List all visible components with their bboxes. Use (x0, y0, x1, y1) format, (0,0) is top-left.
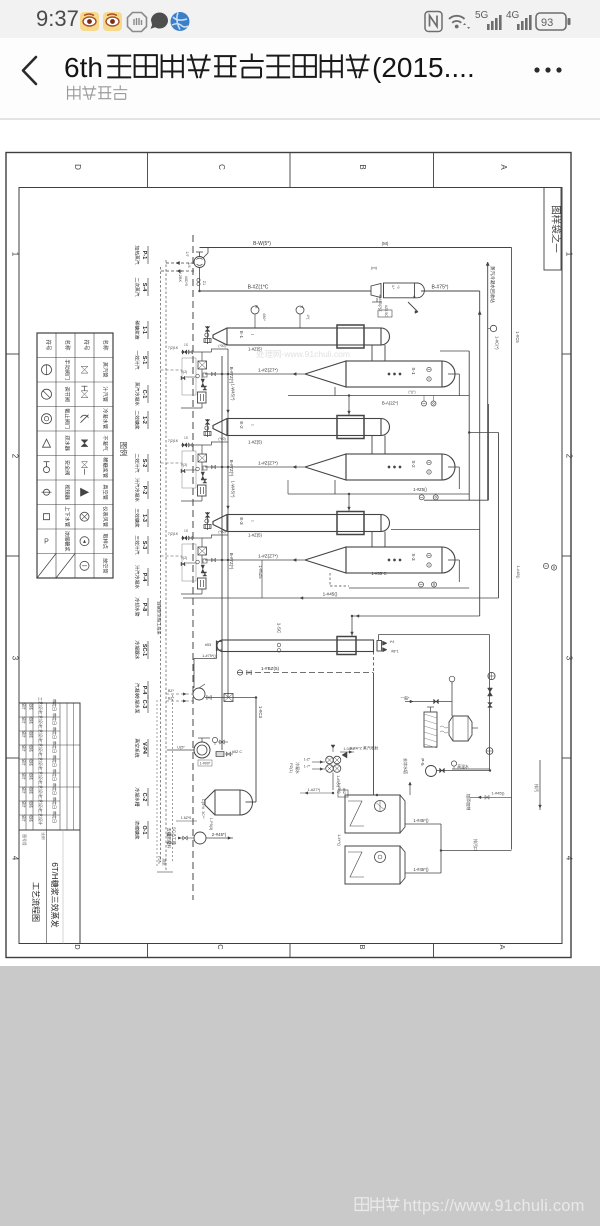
svg-text:1-#5Z5: 1-#5Z5 (258, 565, 263, 579)
svg-text:S-3: S-3 (141, 541, 147, 549)
svg-text:设计: 设计 (22, 814, 27, 822)
subtitle 文件预览 (68, 86, 80, 100)
svg-text:1-1: 1-1 (141, 326, 147, 334)
svg-text:手动阀门: 手动阀门 (64, 359, 72, 380)
svg-text:B: B (358, 164, 367, 169)
svg-text:校核: 校核 (29, 758, 34, 766)
svg-text:B-#A*Z 蒸汽喷射: B-#A*Z 蒸汽喷射 (350, 746, 379, 751)
svg-text:冷凝水: 冷凝水 (295, 762, 300, 774)
svg-text:4-*: 4-* (391, 285, 395, 290)
blowdown line (470, 796, 512, 798)
svg-text:审定日: 审定日 (52, 797, 58, 809)
svg-text:3: 3 (11, 656, 20, 661)
svg-text:1-W45(*): 1-W45(*) (231, 481, 236, 498)
vapor outlet bracket S-2 (448, 466, 459, 468)
footer gray area (0, 966, 600, 1226)
svg-text:*0: *0 (396, 285, 400, 288)
juice feed drops into E cones (227, 410, 230, 413)
svg-text:C-3: C-3 (141, 700, 147, 709)
battery limit dash-dot lines (192, 235, 194, 900)
svg-text:S-1: S-1 (411, 367, 416, 375)
svg-text:B-#7Z(*): B-#7Z(*) (229, 367, 234, 384)
svg-text:二次蒸汽: 二次蒸汽 (134, 277, 141, 296)
svg-text:#8*1: #8*1 (391, 650, 398, 654)
svg-text:B-#7Z(*): B-#7Z(*) (229, 553, 234, 570)
svg-text:仪表风管: 仪表风管 (102, 506, 110, 527)
svg-text:1-P5(3): 1-P5(3) (209, 818, 213, 831)
svg-text:4: 4 (565, 856, 574, 861)
svg-text:1-#45(): 1-#45() (492, 791, 506, 796)
svg-text:汁汽管: 汁汽管 (102, 386, 110, 402)
separator S-1 (305, 361, 346, 387)
trap station inlet line (181, 537, 212, 539)
svg-text:图样袋之一: 图样袋之一 (550, 205, 562, 253)
svg-text:D: D (73, 944, 82, 950)
juice discharge from S-2 (205, 466, 305, 468)
svg-text:1-2: 1-2 (141, 416, 147, 424)
svg-text:P-4: P-4 (141, 573, 147, 581)
svg-text:P-8: P-8 (141, 603, 147, 611)
svg-text:1-#C3: 1-#C3 (258, 706, 263, 719)
svg-text:(*)(*): (*)(*) (408, 390, 415, 394)
svg-text:蒸汽管: 蒸汽管 (102, 362, 110, 378)
row3 condensate lines (329, 573, 331, 586)
svg-text:1S: 1S (184, 436, 188, 440)
svg-text:设计: 设计 (22, 800, 27, 808)
svg-text:V(2): V(2) (181, 370, 187, 374)
header (0, 38, 600, 119)
svg-text:(*00): (*00) (218, 530, 225, 534)
svg-text:2-#45*): 2-#45*) (212, 832, 227, 837)
trap manifold (198, 361, 207, 369)
svg-text:符号: 符号 (83, 339, 91, 351)
svg-text:1-#Z(5): 1-#Z(5) (248, 533, 262, 538)
battery (536, 13, 571, 30)
separator S-3 (305, 547, 346, 573)
svg-text:F2%: F2% (157, 856, 161, 864)
svg-text:一般*: 一般* (400, 696, 410, 701)
vent arrow (409, 784, 411, 795)
seal tank 1 (345, 795, 400, 833)
barometric / drain dash line (237, 672, 374, 674)
svg-text:#6Z: #6Z (342, 788, 346, 795)
svg-text:A: A (412, 296, 417, 299)
trap manifold (198, 454, 207, 462)
svg-text:审定日: 审定日 (52, 713, 58, 725)
svg-text:高温水: 高温水 (457, 764, 469, 769)
svg-text:处理网-www.91chuli.com: 处理网-www.91chuli.com (256, 349, 350, 359)
svg-text:#53: #53 (205, 643, 211, 647)
svg-text:一效汁汽: 一效汁汽 (134, 350, 141, 369)
svg-text:名称: 名称 (102, 339, 110, 351)
strainer (203, 479, 207, 481)
svg-text:1: 1 (565, 252, 574, 257)
legend table (37, 333, 113, 578)
svg-text:1-#45*(): 1-#45*() (413, 867, 429, 872)
row1 condensate line with pots (334, 387, 336, 396)
svg-text:截止阀门: 截止阀门 (64, 408, 72, 429)
svg-text:P-1: P-1 (141, 251, 147, 259)
row2 condensate lines (334, 480, 336, 494)
menu dots (534, 67, 539, 72)
trap station inlet line (181, 351, 212, 353)
svg-text:设计: 设计 (22, 702, 27, 710)
svg-text:#Z5.5C: #Z5.5C (384, 305, 388, 317)
svg-text:P-5: P-5 (420, 758, 425, 766)
svg-text:A: A (498, 944, 507, 949)
svg-text:1-#C5: 1-#C5 (515, 331, 520, 343)
status bar icons (0, 0, 600, 38)
svg-text:Ⅰ: Ⅰ (250, 334, 255, 335)
svg-text:浓缩糖浆: 浓缩糖浆 (64, 531, 72, 552)
svg-text:C(5*#: C(5*# (201, 799, 206, 810)
svg-text:设计: 设计 (22, 730, 27, 738)
steam supply drop with valves (207, 419, 209, 437)
svg-text:1S: 1S (184, 529, 188, 533)
syrup pump (big) (194, 742, 210, 758)
svg-text:B-#75*): B-#75*) (432, 285, 449, 291)
svg-text:去糖浆配料: 去糖浆配料 (166, 828, 173, 850)
vapor duct E-1 to S-1 (371, 345, 373, 361)
svg-text:1-#C(*): 1-#C(*) (495, 336, 500, 350)
svg-text:1-#5*(): 1-#5*() (337, 783, 341, 794)
svg-text:7(2)1K: 7(2)1K (168, 346, 179, 350)
svg-text:C-2: C-2 (141, 793, 147, 802)
svg-text:SC-5工段: SC-5工段 (171, 827, 178, 846)
svg-text:C: C (217, 164, 226, 170)
svg-text:校核: 校核 (29, 730, 34, 738)
svg-text:#*(: #*( (306, 315, 310, 321)
svg-text:稀糖浆液: 稀糖浆液 (134, 320, 141, 339)
svg-text:视镜器: 视镜器 (64, 484, 72, 500)
condenser SC-1 (222, 640, 374, 652)
vapor line into condenser (352, 615, 480, 617)
svg-text:校核: 校核 (29, 716, 34, 724)
vapor duct E-2 to S-2 (371, 436, 373, 455)
svg-text:3: 3 (565, 656, 574, 661)
svg-text:B-W(5*): B-W(5*) (253, 241, 271, 247)
svg-text:1-3: 1-3 (141, 514, 147, 522)
svg-text:校核: 校核 (29, 744, 34, 752)
svg-text:排浆: 排浆 (162, 858, 167, 866)
svg-text:图例: 图例 (119, 442, 129, 457)
condenser top water line (379, 634, 490, 636)
svg-text:Z1: Z1 (202, 281, 206, 285)
tank outlet header (440, 824, 442, 873)
svg-text:S-1: S-1 (141, 356, 147, 364)
svg-text:取样点: 取样点 (102, 533, 110, 549)
svg-text:B-A(2Z*): B-A(2Z*) (382, 401, 399, 406)
svg-text:冷凝水槽: 冷凝水槽 (134, 787, 141, 806)
instrument bubbles above E-1 (251, 306, 259, 314)
feed stubs into pump P-4 (166, 693, 193, 695)
svg-text:V(2): V(2) (181, 556, 187, 560)
svg-text:1-#Z(Z7*): 1-#Z(Z7*) (258, 368, 278, 373)
top-right drawing number box (544, 188, 561, 271)
svg-text:U(5*: U(5* (177, 746, 185, 750)
svg-text:工艺设计: 工艺设计 (38, 809, 44, 825)
svg-text:放空管: 放空管 (102, 558, 110, 574)
junction dots (198, 290, 200, 292)
svg-text:校核: 校核 (29, 786, 34, 794)
cooling tower (424, 712, 437, 747)
svg-text:S-2: S-2 (411, 460, 416, 468)
svg-text:P-2: P-2 (141, 486, 147, 494)
svg-text:安全阀: 安全阀 (64, 460, 72, 476)
svg-text:C: C (216, 944, 225, 950)
svg-text:符号: 符号 (45, 339, 53, 351)
svg-text:1-#Z5(): 1-#Z5() (413, 487, 427, 492)
svg-text:不凝气: 不凝气 (102, 435, 110, 451)
svg-text:480*: 480* (262, 313, 266, 321)
vapor outlet bracket S-3 (448, 559, 459, 561)
svg-text:1/4: 1/4 (187, 262, 191, 267)
trap manifold (198, 547, 207, 555)
pump P-4 (193, 688, 205, 700)
svg-text:加热蒸汽: 加热蒸汽 (134, 245, 141, 264)
svg-text:二效糖浆: 二效糖浆 (134, 410, 141, 429)
svg-text:图号设: 图号设 (22, 834, 27, 846)
svg-text:#8D*5: #8D*5 (184, 276, 188, 286)
svg-text:P: P (44, 539, 49, 546)
svg-text:汁汽冷凝水: 汁汽冷凝水 (134, 478, 141, 502)
evaporator E-1 body (227, 328, 381, 345)
svg-text:PZ(1): PZ(1) (289, 763, 294, 774)
octagon hand icon (128, 13, 147, 32)
long utility drop right side (511, 248, 513, 850)
svg-text:设计: 设计 (22, 758, 27, 766)
svg-text:稀糖浆管: 稀糖浆管 (102, 457, 110, 478)
svg-text:1-#Z(5): 1-#Z(5) (248, 440, 262, 445)
svg-text:1.6Z*5: 1.6Z*5 (181, 816, 192, 820)
svg-text:1-Z*: 1-Z* (304, 758, 311, 762)
svg-text:6T/H糖浆三效蒸发: 6T/H糖浆三效蒸发 (50, 862, 60, 927)
svg-text:1-W45(*): 1-W45(*) (231, 384, 236, 401)
title block (19, 703, 80, 944)
separator S-2 (305, 454, 346, 480)
svg-text:B: B (358, 944, 367, 949)
evaporator E-2 body (227, 419, 381, 436)
svg-text:审定日: 审定日 (52, 783, 58, 795)
svg-text:审定日: 审定日 (52, 811, 58, 823)
svg-text:V(2): V(2) (181, 463, 187, 467)
svg-text:7(2)1K: 7(2)1K (168, 439, 179, 443)
pump P-5 (426, 766, 437, 777)
trap station inlet line (181, 444, 212, 446)
svg-text:蒸汽冷凝水回收站: 蒸汽冷凝水回收站 (489, 266, 496, 303)
svg-text:三效糖浆: 三效糖浆 (134, 508, 141, 527)
svg-text:1/7: 1/7 (185, 251, 189, 256)
svg-text:校核: 校核 (29, 702, 34, 710)
svg-text:1-#Y*(): 1-#Y*() (337, 834, 341, 845)
svg-text:1-#Z(Z7*): 1-#Z(Z7*) (258, 461, 278, 466)
svg-text:设计: 设计 (22, 744, 27, 752)
globe icon (171, 12, 190, 31)
status bar (0, 0, 600, 38)
condensate riser to recovery station (487, 262, 489, 500)
svg-text:加添加剂: 加添加剂 (465, 794, 472, 811)
feed valve flag (408, 302, 418, 312)
svg-text:S-3: S-3 (411, 553, 416, 561)
long vertical juice lines (221, 356, 223, 750)
drop to horizontal condensate tank (255, 698, 257, 803)
svg-text:1-7*: 1-7* (304, 765, 311, 769)
svg-text:二效汁汽: 二效汁汽 (134, 453, 141, 472)
svg-text:设计: 设计 (22, 786, 27, 794)
svg-text:冷凝器水: 冷凝器水 (134, 640, 141, 659)
svg-text:冷凝水泵: 冷凝水泵 (134, 694, 141, 713)
svg-text:1-#Z7*): 1-#Z7*) (308, 788, 321, 792)
svg-text:B-#7Z(*): B-#7Z(*) (229, 460, 234, 477)
svg-text:1S: 1S (184, 343, 188, 347)
svg-text:7(2)1K: 7(2)1K (168, 532, 179, 536)
right side vapor/condensate risers (468, 351, 470, 500)
svg-text:2: 2 (565, 454, 574, 459)
drawing sheet outer border (6, 153, 571, 958)
svg-text:设计: 设计 (22, 772, 27, 780)
svg-text:审定日: 审定日 (52, 741, 58, 753)
svg-text:BZ*: BZ* (168, 689, 175, 693)
back chevron (23, 57, 36, 84)
svg-text:D: D (73, 164, 82, 170)
svg-text:排污口: 排污口 (473, 839, 479, 851)
horizontal condensate tank (215, 790, 240, 815)
svg-text:汁汽冷凝水: 汁汽冷凝水 (134, 565, 141, 589)
svg-text:审定日: 审定日 (52, 769, 58, 781)
svg-text:O-1: O-1 (141, 826, 147, 835)
svg-text:B-#Z(1*C: B-#Z(1*C (248, 285, 269, 291)
svg-text:1-#45(): 1-#45() (516, 566, 521, 580)
svg-text:C-1: C-1 (141, 390, 147, 399)
water jet vacuum group (326, 756, 334, 764)
incoming/outgoing stream flags (147, 246, 149, 264)
svg-text:审定日: 审定日 (52, 699, 58, 711)
svg-text:TI: TI (299, 305, 303, 308)
svg-text:三效汁汽: 三效汁汽 (134, 535, 141, 554)
svg-text:(*00): (*00) (218, 437, 225, 441)
svg-text:比例: 比例 (41, 832, 46, 840)
svg-text:自糖浆浓缩工段来: 自糖浆浓缩工段来 (156, 601, 163, 635)
svg-text:E-1: E-1 (239, 331, 244, 339)
drawing sheet inner border (19, 188, 562, 944)
cooling water line (405, 701, 452, 703)
condensate header line (200, 290, 372, 292)
svg-text:(*00): (*00) (218, 344, 225, 348)
svg-text:审定日: 审定日 (52, 727, 58, 739)
svg-text:排污: 排污 (534, 784, 540, 792)
svg-text:B-#45(7)Z: B-#45(7)Z (378, 294, 382, 312)
juice discharge from S-3 (205, 559, 305, 561)
watermark 处理网 + url (355, 1198, 368, 1211)
svg-text:S-2: S-2 (141, 459, 147, 467)
note bubbles (543, 563, 548, 568)
top distribution station V-1 (194, 257, 205, 268)
svg-text:1-#00*: 1-#00* (200, 762, 211, 766)
svg-text:1: 1 (11, 252, 20, 257)
svg-text:去凉水塔: 去凉水塔 (403, 758, 409, 774)
svg-text:校核: 校核 (29, 800, 34, 808)
svg-text:#5Z C: #5Z C (232, 750, 243, 754)
juice discharge from S-1 (205, 373, 305, 375)
svg-text:上下水管: 上下水管 (64, 506, 72, 527)
speech bubble icon (151, 13, 168, 29)
svg-text:校核: 校核 (29, 814, 34, 822)
svg-text:审定日: 审定日 (52, 755, 58, 767)
steam supply drop with valves (207, 512, 209, 530)
app icon eye 1 (80, 12, 99, 31)
steam main B-W line (200, 247, 512, 249)
tailpipe from condenser bottom (216, 651, 218, 659)
svg-text:蒸汽冷凝水: 蒸汽冷凝水 (134, 382, 141, 406)
svg-text:浓缩糖浆: 浓缩糖浆 (134, 820, 141, 839)
svg-text:SC-1: SC-1 (141, 644, 147, 656)
svg-text:(M): (M) (382, 241, 389, 246)
steam supply drop with valves (207, 326, 209, 344)
svg-text:校核: 校核 (29, 772, 34, 780)
svg-text:真空管: 真空管 (102, 484, 110, 500)
svg-text:1-#45(): 1-#45() (323, 592, 338, 597)
svg-text:4: 4 (11, 856, 20, 861)
svg-text:冷凝水管: 冷凝水管 (102, 408, 110, 429)
small drain line (176, 820, 197, 822)
svg-text:t*4: t*4 (390, 640, 394, 644)
app icon eye 2 (103, 12, 122, 31)
svg-text:PI: PI (254, 305, 258, 308)
svg-text:V-P4: V-P4 (141, 742, 147, 754)
strainer (203, 386, 207, 388)
svg-text:名称: 名称 (64, 339, 72, 351)
svg-text:1-#55*C: 1-#55*C (371, 571, 386, 576)
gauge on hotwell riser (486, 748, 493, 755)
svg-text:设计: 设计 (22, 716, 27, 724)
svg-text:1-#Z(Z7*): 1-#Z(Z7*) (258, 554, 278, 559)
vapor duct E-3 to S-3 (371, 532, 373, 548)
svg-text:E-3: E-3 (239, 517, 244, 525)
NFC icon (425, 12, 442, 32)
tailpipe to seal tank (373, 652, 375, 674)
condensate drop line (479, 291, 481, 616)
svg-text:3C**: 3C** (201, 811, 205, 819)
svg-text:2: 2 (11, 454, 20, 459)
svg-text:Ⅰ: Ⅰ (250, 424, 255, 425)
svg-text:S-4: S-4 (141, 283, 147, 291)
svg-text:1-#75*(): 1-#75*() (202, 654, 216, 658)
hot well riser (488, 672, 495, 679)
svg-text:Ⅰ: Ⅰ (250, 520, 255, 521)
svg-text:https://www.91chuli.com: https://www.91chuli.com (403, 1197, 585, 1215)
svg-text:W-2BK: W-2BK (178, 270, 182, 282)
svg-text:调节阀: 调节阀 (64, 386, 72, 402)
cold water basin tank (449, 716, 472, 741)
svg-text:工艺流程图: 工艺流程图 (31, 882, 41, 922)
svg-text:1-#BZ(5): 1-#BZ(5) (261, 666, 280, 671)
svg-text:疏水器: 疏水器 (64, 435, 72, 451)
svg-text:1-SC: 1-SC (277, 623, 282, 634)
wifi icon (449, 16, 465, 23)
svg-text:P-4: P-4 (141, 686, 147, 694)
svg-text:E-2: E-2 (239, 421, 244, 429)
condenser outlet flags (383, 641, 388, 645)
flash drum on condensate header (371, 284, 381, 298)
svg-text:1-#45*(): 1-#45*() (413, 818, 429, 823)
svg-text:BZ*: BZ* (168, 697, 175, 701)
svg-text:A: A (499, 164, 508, 170)
svg-text:冷却水管: 冷却水管 (134, 597, 141, 616)
strainer (203, 572, 207, 574)
svg-text:真空系统: 真空系统 (134, 738, 141, 757)
discharge pump bottom (194, 832, 206, 844)
svg-text:(m): (m) (371, 265, 378, 270)
